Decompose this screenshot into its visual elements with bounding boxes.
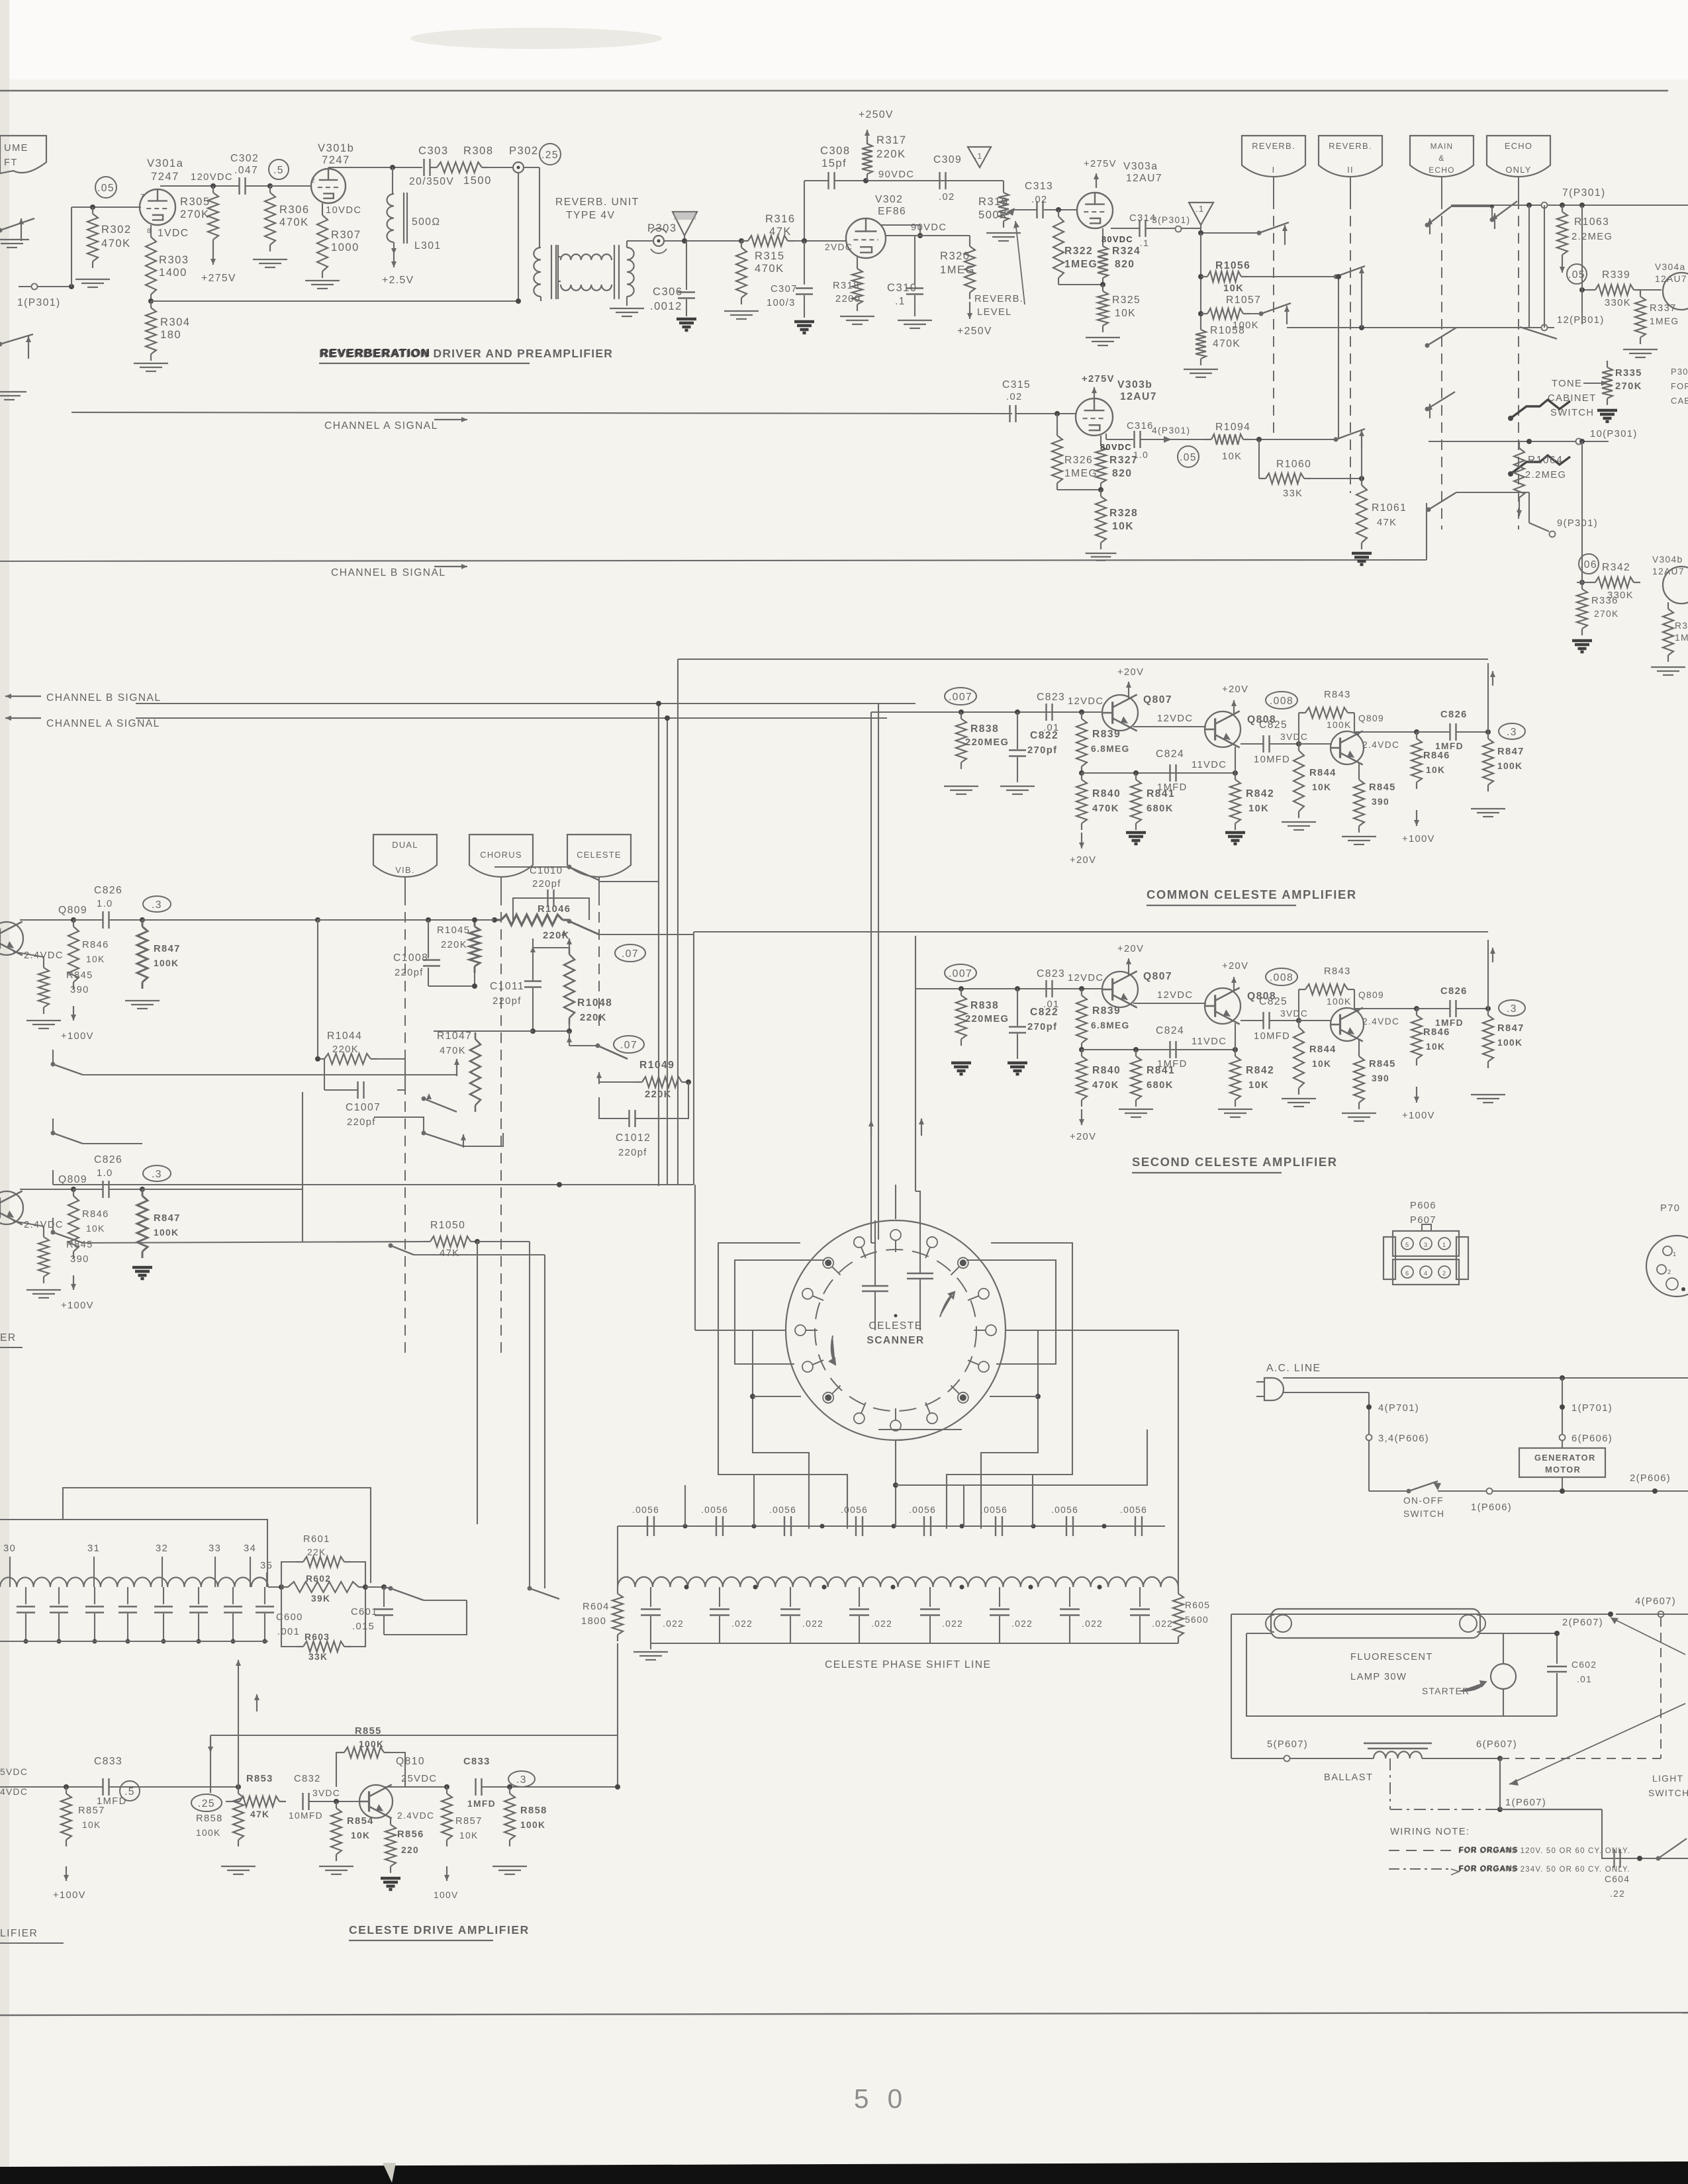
delay cap #6: [198, 1587, 199, 1604]
svg-text:10K: 10K: [1115, 308, 1136, 319]
svg-text:R337: R337: [1650, 303, 1677, 314]
vertical feed V304b: [1579, 439, 1585, 444]
vertical x1353 feed: [895, 1185, 896, 1219]
svg-text:C826: C826: [94, 885, 122, 896]
resistor R307 1000 cathode: [322, 203, 323, 208]
R601 22K bypass: [268, 1586, 281, 1588]
svg-text:R853: R853: [246, 1774, 273, 1784]
svg-text:3,4(P606): 3,4(P606): [1378, 1433, 1429, 1444]
svg-text:100K: 100K: [196, 1828, 221, 1838]
resistor R324 820: [1102, 228, 1103, 240]
svg-text:5 0: 5 0: [854, 2083, 908, 2114]
svg-text:22K: 22K: [307, 1547, 326, 1557]
svg-text:7(P301): 7(P301): [1562, 187, 1606, 199]
svg-text:FT: FT: [4, 158, 18, 168]
svg-text:P606: P606: [1410, 1201, 1436, 1211]
transistor Q809: [1331, 731, 1364, 764]
svg-text:DUAL: DUAL: [392, 840, 418, 850]
svg-text:.0056: .0056: [1051, 1505, 1078, 1515]
svg-text:CHANNEL A SIGNAL: CHANNEL A SIGNAL: [46, 718, 160, 729]
svg-text:47K: 47K: [1377, 518, 1397, 528]
top border line: [0, 90, 1668, 91]
label .007 ellipse: [945, 964, 976, 981]
svg-text:.007: .007: [949, 968, 972, 979]
svg-text:.5: .5: [124, 1786, 135, 1797]
delay line top wire y2296: [0, 1520, 267, 1586]
bottom feedback wire y845: [1426, 503, 1427, 560]
switch b: [1334, 275, 1338, 279]
resistor R840 470K: [1081, 773, 1082, 780]
svg-text:REVERB.: REVERB.: [1252, 141, 1295, 151]
ground R306: [253, 259, 287, 260]
capacitor .022 #8: [1139, 1587, 1141, 1607]
dashed stem celeste: [598, 877, 600, 895]
svg-text:220K: 220K: [332, 1044, 359, 1055]
resistor R1044 220K: [318, 1058, 324, 1060]
resistor R845 390 left: [13, 1221, 44, 1230]
svg-text:Q809: Q809: [58, 1174, 87, 1185]
up arrow x690: [456, 1059, 457, 1076]
svg-text:390: 390: [1372, 797, 1389, 807]
capacitor C310 .1: [914, 236, 915, 285]
output wire to C314: [1111, 228, 1139, 229]
svg-text:15pf: 15pf: [821, 157, 847, 169]
svg-text:R335: R335: [1615, 368, 1642, 379]
svg-text:4: 4: [1424, 1270, 1428, 1277]
svg-text:+275V: +275V: [201, 273, 236, 284]
svg-text:R839: R839: [1092, 729, 1121, 740]
svg-text:2.4VDC: 2.4VDC: [1362, 1017, 1399, 1026]
svg-text:20/350V: 20/350V: [409, 176, 454, 187]
svg-text:32: 32: [156, 1543, 168, 1554]
svg-text:1(P607): 1(P607): [1505, 1797, 1546, 1808]
collector wire Q810: [384, 1786, 447, 1788]
+100V arrow: [1416, 1087, 1417, 1103]
svg-text:R858: R858: [520, 1805, 547, 1816]
pin 3 P606 top: [1438, 1238, 1450, 1250]
svg-text:CHANNEL B SIGNAL: CHANNEL B SIGNAL: [46, 692, 162, 704]
resistor R317 220K: [867, 137, 868, 144]
resistor R847 100K: [1487, 732, 1489, 739]
capacitor .0056 #1: [647, 1516, 648, 1536]
svg-text:REVERBERATION: REVERBERATION: [320, 346, 430, 359]
svg-text:REVERB.: REVERB.: [974, 294, 1023, 304]
R1049 220K bridge: [635, 1081, 642, 1083]
vertical x2310 y310-495: [1528, 205, 1530, 328]
wire P302 down to bus: [518, 173, 519, 301]
svg-text:C825: C825: [1259, 996, 1288, 1007]
vertical tie x2022: [1338, 277, 1339, 439]
switch mid s2: [422, 1097, 426, 1101]
svg-text:5(P607): 5(P607): [1267, 1739, 1308, 1750]
svg-text:R841: R841: [1147, 1065, 1175, 1076]
tap 33: [214, 1557, 216, 1587]
svg-text:C316: C316: [1127, 421, 1154, 432]
output wire Q809: [1354, 1008, 1417, 1009]
transistor Q809 left: [0, 1191, 23, 1224]
svg-text:+2.5V: +2.5V: [382, 275, 414, 286]
svg-text:470K: 470K: [1213, 338, 1241, 349]
svg-text:100K: 100K: [154, 1228, 179, 1238]
svg-text:2: 2: [1667, 1269, 1671, 1275]
svg-text:.3: .3: [152, 899, 162, 911]
svg-text:.07: .07: [620, 1040, 637, 1051]
svg-text:6.8MEG: 6.8MEG: [1091, 744, 1130, 754]
resistor R325 10K: [1100, 282, 1105, 287]
svg-text:7: 7: [140, 193, 145, 201]
switch with arrow 2 left: [0, 342, 3, 347]
label .25 ellipse: [191, 1794, 222, 1811]
svg-text:12VDC: 12VDC: [1157, 713, 1193, 724]
scanner rotor arrows: [940, 1292, 955, 1317]
resistor R1063 2.2MEG: [1562, 205, 1563, 212]
svg-text:220K: 220K: [876, 148, 906, 160]
banner REVERB I: [1242, 136, 1305, 177]
svg-text:470K: 470K: [1092, 1080, 1119, 1091]
svg-text:2VDC: 2VDC: [825, 242, 853, 252]
lamp left drop: [1231, 1614, 1232, 1758]
wire plate to transformer: [523, 167, 539, 168]
pin 6 P606 bottom: [1438, 1266, 1450, 1278]
svg-text:10MFD: 10MFD: [289, 1811, 323, 1821]
label .5 ellipse: [120, 1781, 140, 1801]
svg-text:100K: 100K: [520, 1820, 545, 1830]
+20V arrow below R840: [1081, 833, 1082, 848]
scanner caps inside: [862, 1285, 888, 1287]
svg-text:.1: .1: [895, 296, 906, 307]
svg-text:.022: .022: [1082, 1619, 1103, 1629]
pin 2 P606 top: [1420, 1238, 1432, 1250]
arrow +2.5V: [393, 253, 395, 255]
svg-text:+100V: +100V: [1402, 1111, 1435, 1121]
resistor R858 100K right: [509, 1787, 510, 1794]
signal flag triangle 5mV: [673, 212, 697, 236]
capacitor C316 1.0: [1133, 431, 1135, 448]
svg-text:C1007: C1007: [346, 1102, 381, 1113]
svg-text:220K: 220K: [580, 1013, 607, 1023]
transistor Q808: [1205, 711, 1241, 747]
svg-text:4(P607): 4(P607): [1635, 1596, 1676, 1607]
svg-text:R846: R846: [82, 1209, 109, 1220]
svg-text:.008: .008: [1270, 972, 1293, 983]
svg-text:10MFD: 10MFD: [1254, 1031, 1290, 1042]
AC plug symbol: [1264, 1378, 1284, 1400]
svg-text:2.4VDC: 2.4VDC: [1362, 740, 1399, 750]
svg-text:R1048: R1048: [577, 997, 612, 1009]
scanner terminals: [895, 1235, 896, 1252]
svg-text:2.2MEG: 2.2MEG: [1525, 470, 1566, 480]
switch row wire: [83, 1074, 424, 1075]
svg-text:Q810: Q810: [396, 1756, 425, 1767]
tap links nest: [718, 1474, 754, 1475]
svg-text:CABINET: CABINET: [1548, 393, 1596, 404]
svg-text:V302: V302: [875, 194, 903, 205]
ballast wire: [1231, 1758, 1374, 1759]
resistor R839 6.8MEG: [1081, 989, 1082, 995]
svg-text:1MFD: 1MFD: [1435, 1018, 1464, 1028]
switch g: [1334, 437, 1338, 442]
arrow C1011 top: [569, 938, 570, 953]
resistor R1045 220K: [474, 920, 476, 927]
svg-text:1MEG: 1MEG: [1064, 468, 1098, 479]
svg-text:R603: R603: [305, 1632, 330, 1642]
svg-text:R324: R324: [1112, 246, 1141, 257]
svg-text:C604: C604: [1605, 1874, 1630, 1884]
resistor R846 10K: [1414, 1006, 1419, 1011]
tube V302 EF86: [846, 218, 886, 258]
transistor Q809 left: [0, 922, 23, 955]
svg-text:.5: .5: [273, 165, 284, 176]
svg-text:.02: .02: [1031, 195, 1048, 205]
scanner outer circle: [786, 1220, 1006, 1440]
dashed stem echo only: [1518, 177, 1519, 199]
resistor R844 10K: [1298, 744, 1299, 751]
coil L301 with core: [392, 167, 393, 194]
capacitor C307 100/3: [802, 238, 807, 244]
svg-text:Q809: Q809: [58, 905, 87, 916]
svg-text:.01: .01: [1043, 723, 1060, 733]
wire 10(P301) y667: [1429, 441, 1609, 442]
svg-text:+20V: +20V: [1117, 667, 1144, 678]
svg-text:R1094: R1094: [1215, 422, 1250, 433]
switch row y1558 to celeste stem: [434, 1030, 533, 1032]
svg-text:BALLAST: BALLAST: [1324, 1772, 1373, 1783]
svg-text:1500: 1500: [463, 174, 492, 187]
svg-text:470K: 470K: [755, 262, 784, 275]
label 3 ellipse out: [1499, 723, 1525, 739]
capacitor C1008 220pf: [428, 920, 429, 958]
svg-text:EF86: EF86: [878, 206, 906, 217]
svg-text:R1056: R1056: [1215, 260, 1250, 271]
svg-text:1VDC: 1VDC: [158, 228, 189, 239]
collector Q809 wire: [1354, 713, 1355, 733]
svg-text:680K: 680K: [1147, 1080, 1174, 1091]
resistor R322 1MEG: [1056, 207, 1061, 212]
tap 35: [266, 1572, 267, 1587]
switch celeste out: [567, 919, 572, 924]
capacitor C1011 220pf: [532, 938, 534, 981]
capacitor .022 #7: [1069, 1587, 1070, 1607]
svg-text:ONLY: ONLY: [1505, 165, 1531, 175]
resistor R838 220MEG: [961, 989, 962, 995]
resistor R1047 470K: [475, 1032, 477, 1039]
ground R842: [1225, 833, 1245, 844]
wire stage1 to switches: [142, 919, 318, 921]
feedback loop top left: [210, 1735, 211, 1793]
svg-text:10K: 10K: [86, 954, 105, 964]
svg-text:SECOND CELESTE AMPLIFIER: SECOND CELESTE AMPLIFIER: [1132, 1155, 1338, 1169]
resistor R846 10K left: [73, 1189, 74, 1196]
resistor R1057 100K: [1201, 313, 1207, 314]
svg-text:C307: C307: [771, 284, 798, 295]
celeste row wire: [915, 988, 1082, 989]
svg-text:34: 34: [244, 1543, 256, 1554]
svg-text:.05: .05: [97, 183, 115, 194]
svg-text:1.0: 1.0: [97, 1168, 113, 1179]
svg-text:.01: .01: [1577, 1674, 1592, 1684]
svg-text:C308: C308: [820, 144, 851, 157]
delay cap #2: [58, 1587, 60, 1604]
svg-text:CELESTE: CELESTE: [577, 850, 622, 860]
right edge up arrow: [1487, 663, 1489, 732]
svg-text:47K: 47K: [440, 1248, 459, 1259]
svg-text:10K: 10K: [86, 1224, 105, 1234]
heavy ground C306: [677, 319, 696, 330]
switch c: [1259, 312, 1264, 316]
svg-text:R308: R308: [463, 144, 494, 157]
svg-text:3VDC: 3VDC: [1280, 1009, 1308, 1019]
channel A drop to row1: [870, 712, 872, 718]
svg-text:R846: R846: [82, 940, 109, 950]
svg-text:12VDC: 12VDC: [1068, 973, 1103, 983]
capacitor .022 #4: [859, 1587, 860, 1607]
svg-text:C824: C824: [1156, 1025, 1184, 1036]
switch top celeste: [567, 865, 572, 870]
svg-text:TONE: TONE: [1552, 379, 1582, 389]
vertical feed V304a: [1579, 203, 1585, 208]
verticals x995 x1008 switch bus: [658, 704, 659, 1186]
svg-text:.25: .25: [541, 150, 559, 161]
svg-text:.1: .1: [1196, 204, 1204, 214]
svg-text:C313: C313: [1025, 181, 1053, 192]
resistor R843 100K: [1298, 989, 1299, 1021]
row wire to R1046: [318, 919, 494, 921]
capacitor C833 1MFD: [475, 1778, 476, 1796]
capacitor C309 .02: [939, 172, 940, 189]
ground R315: [724, 310, 759, 312]
svg-text:10K: 10K: [1312, 782, 1331, 792]
svg-text:FOR ORGANS: FOR ORGANS: [1459, 1846, 1519, 1854]
+20V arrow Q807: [1128, 958, 1129, 974]
resistor R1056 10K: [1201, 276, 1207, 277]
capacitor C832 10MFD: [302, 1793, 303, 1810]
transistor Q807: [1102, 972, 1138, 1007]
resistor R857 10K: [446, 1787, 447, 1794]
plug P303: [627, 240, 653, 242]
resistor R854 10K: [336, 1801, 337, 1808]
svg-text:220: 220: [401, 1845, 419, 1855]
svg-text:LEVEL: LEVEL: [977, 307, 1012, 318]
up arrows inside left: [870, 1120, 872, 1138]
tube V301b 7247: [311, 169, 346, 203]
channel B mid line: [5, 696, 41, 697]
svg-text:C602: C602: [1571, 1660, 1597, 1670]
left drive stage wire: [0, 1786, 103, 1788]
svg-text:R322: R322: [1064, 246, 1093, 257]
wire stage2 right: [142, 1189, 303, 1190]
svg-text:Q807: Q807: [1143, 971, 1172, 982]
resistor R845 390: [1358, 773, 1360, 780]
pin 5 P606 bottom: [1420, 1266, 1432, 1278]
svg-text:10MFD: 10MFD: [1254, 754, 1290, 765]
svg-text:4(P301): 4(P301): [1152, 426, 1190, 435]
transformer horizontal coils: [558, 256, 561, 257]
svg-text:R846: R846: [1423, 751, 1450, 761]
svg-text:1(P606): 1(P606): [1471, 1502, 1512, 1513]
label .07 circle b: [614, 1036, 644, 1053]
svg-text:100K: 100K: [1327, 997, 1352, 1007]
svg-text:+275V: +275V: [1082, 374, 1115, 385]
stage wire: [20, 919, 73, 921]
svg-text:820: 820: [1115, 259, 1135, 270]
svg-text:C833: C833: [94, 1756, 122, 1767]
svg-text:.02: .02: [1006, 392, 1023, 402]
banner ECHO ONLY: [1487, 136, 1550, 177]
svg-text:II: II: [1347, 165, 1354, 175]
capacitor C822 270pf: [1015, 986, 1020, 991]
svg-text:100V: 100V: [434, 1890, 459, 1900]
svg-text:100K: 100K: [1327, 720, 1352, 730]
svg-text:270pf: 270pf: [1027, 1022, 1057, 1032]
svg-text:R1060: R1060: [1276, 459, 1311, 470]
resistor R843 100K: [1298, 713, 1299, 744]
dashed stem reverb I: [1273, 177, 1274, 199]
svg-text:.0056: .0056: [769, 1505, 796, 1515]
svg-text:12VDC: 12VDC: [1068, 696, 1103, 707]
svg-text:C310: C310: [887, 281, 917, 294]
capacitor .022 #3: [790, 1587, 791, 1607]
svg-text:R1044: R1044: [327, 1030, 362, 1042]
svg-text:12VDC: 12VDC: [1157, 990, 1193, 1001]
svg-text:R302: R302: [101, 223, 132, 236]
svg-text:2.4VDC: 2.4VDC: [24, 950, 64, 961]
svg-text:470K: 470K: [101, 237, 131, 250]
capacitor C602 .01: [1556, 1633, 1558, 1664]
+20V arrow Q807: [1128, 682, 1129, 698]
svg-text:FOR: FOR: [1671, 381, 1688, 391]
svg-text:I: I: [1272, 165, 1276, 175]
ground: [0, 391, 26, 392]
banner CELESTE: [567, 835, 631, 877]
tap 31: [93, 1557, 95, 1587]
capacitor .022 #1: [650, 1587, 651, 1607]
svg-text:R318: R318: [833, 281, 860, 291]
svg-text:820: 820: [1112, 468, 1132, 479]
svg-text:.05: .05: [1180, 452, 1197, 463]
svg-text:R857: R857: [455, 1816, 483, 1827]
svg-text:V301a: V301a: [147, 157, 183, 169]
svg-text:R315: R315: [755, 250, 785, 262]
svg-text:V304b: V304b: [1652, 555, 1683, 565]
svg-text:+100V: +100V: [53, 1890, 86, 1901]
svg-text:C303: C303: [418, 144, 449, 157]
delay cap #5: [163, 1587, 164, 1604]
svg-text:R320: R320: [940, 250, 970, 262]
svg-text:R306: R306: [279, 203, 310, 216]
resistor R844 10K: [1298, 1021, 1299, 1027]
svg-text:6.8MEG: 6.8MEG: [1091, 1021, 1130, 1030]
svg-text:.047: .047: [234, 165, 258, 176]
svg-text:C601: C601: [351, 1607, 378, 1617]
transistor Q807: [1102, 695, 1138, 731]
svg-text:Q807: Q807: [1143, 694, 1172, 705]
vertical x1048 to celeste box: [693, 934, 694, 1185]
svg-text:2: 2: [1442, 1270, 1446, 1277]
svg-text:R1061: R1061: [1372, 502, 1407, 514]
capacitor .022 #6: [999, 1587, 1000, 1607]
resistor R303 1400 cathode: [150, 225, 152, 230]
svg-text:+250V: +250V: [859, 109, 894, 120]
scan smudge top: [410, 28, 662, 49]
R1060 branch: [1258, 439, 1260, 478]
resistor R846 10K: [1414, 729, 1419, 735]
lamp top wire: [1231, 1614, 1611, 1615]
svg-text:.0056: .0056: [909, 1505, 936, 1515]
svg-text:12AU7: 12AU7: [1655, 274, 1687, 284]
svg-text:220pf: 220pf: [492, 996, 522, 1007]
resistor R326 1MEG: [1056, 414, 1058, 429]
capacitor C314 .1: [1139, 220, 1140, 237]
